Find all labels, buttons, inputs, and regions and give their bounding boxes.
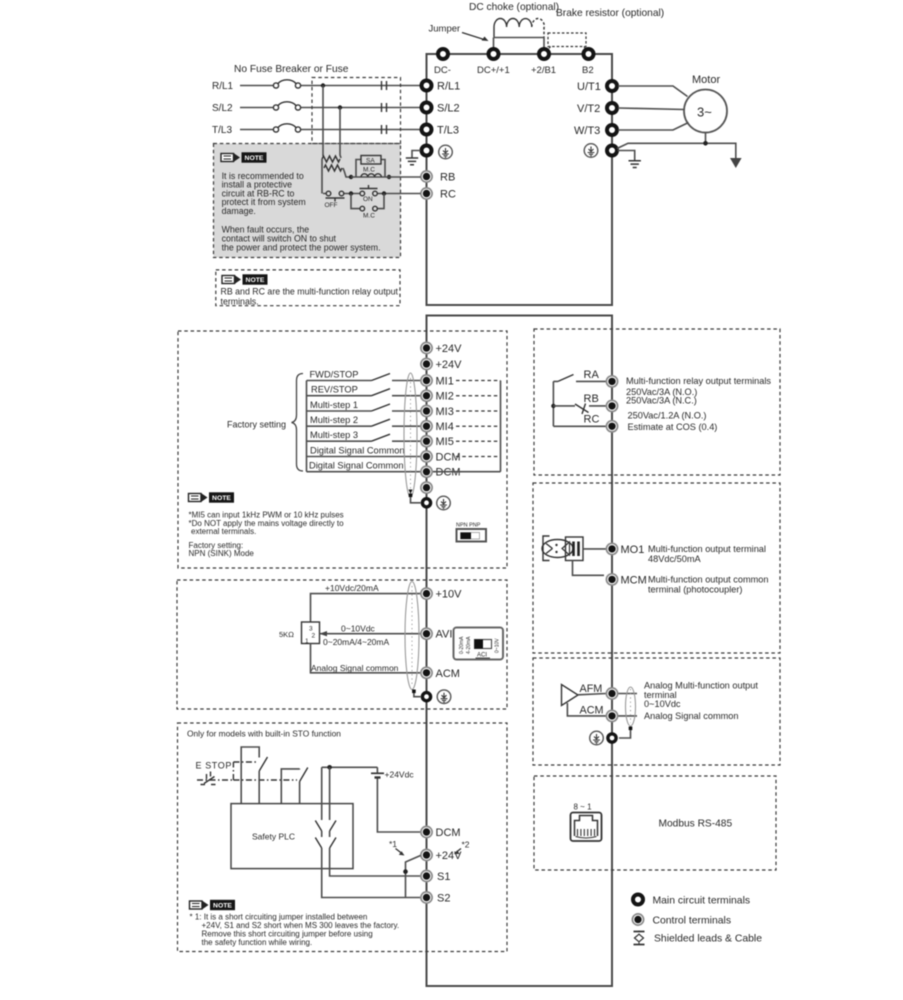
label ACM right: [580, 704, 604, 716]
safety PLC box: [231, 804, 353, 869]
svg-text:250Vac/3A (N.C.): 250Vac/3A (N.C.): [626, 396, 697, 406]
svg-text:2: 2: [312, 633, 316, 640]
control section rectangle: [427, 316, 613, 987]
label RB: [584, 393, 599, 405]
terminal T/L3: [422, 125, 460, 137]
label 0~20mA/4~20mA: [323, 637, 389, 647]
terminal B2: [582, 49, 594, 76]
wire S/L2 phase: [240, 107, 420, 109]
wire RC feed: [323, 193, 421, 195]
label Multi-step 1: [310, 400, 358, 410]
svg-text:OFF: OFF: [325, 202, 338, 209]
ground wire left: [412, 151, 421, 159]
ground wire right: [618, 151, 635, 161]
shield wire to motor earth: [617, 143, 736, 158]
svg-text:R/L1: R/L1: [437, 81, 460, 93]
node OFF out: [349, 191, 353, 195]
terminal shield digital: [422, 499, 430, 507]
relay output dashed box: [534, 329, 780, 475]
wire RC relay: [553, 425, 606, 427]
svg-text:Only for models with built-in: Only for models with built-in STO functi…: [187, 729, 341, 739]
label AFM: [580, 683, 603, 695]
terminal U/T1: [577, 81, 617, 93]
shield ellipse analog: [405, 582, 421, 697]
terminal MI1: [421, 375, 454, 388]
node tap S/L2: [338, 105, 342, 109]
svg-text:48Vdc/50mA: 48Vdc/50mA: [648, 554, 701, 564]
svg-text:NPN PNP: NPN PNP: [456, 523, 481, 529]
wire pot wiper to AVI: [320, 631, 421, 636]
svg-text:Analog Multi-function output: Analog Multi-function output: [644, 680, 758, 690]
terminal shield AFM: [608, 734, 616, 742]
contact STO1: [241, 747, 267, 804]
wire sink vertical: [500, 381, 502, 472]
wire STO channel 2: [315, 767, 420, 897]
dashed link MI1: [456, 380, 501, 382]
svg-text:DCM: DCM: [436, 452, 461, 464]
label Digital Signal Common b: [309, 461, 404, 471]
switch ACI dip: [454, 628, 504, 660]
svg-text:No Fuse Breaker or Fuse: No Fuse Breaker or Fuse: [234, 64, 349, 75]
label DC choke (optional): [469, 2, 559, 13]
label *2 with arrow: [454, 840, 470, 855]
svg-text:AVI: AVI: [436, 629, 453, 641]
svg-text:external terminals.: external terminals.: [191, 527, 256, 536]
svg-text:DC-: DC-: [434, 65, 451, 76]
capacitor bars T/L3: [382, 125, 387, 134]
terminal S1: [421, 870, 451, 883]
svg-text:NPN (SINK) Mode: NPN (SINK) Mode: [189, 549, 255, 558]
wire relay left bus: [551, 381, 555, 426]
svg-text:0~10Vdc: 0~10Vdc: [341, 624, 376, 634]
wire ACM right: [567, 703, 637, 716]
svg-text:S1: S1: [437, 871, 450, 883]
svg-text:RA: RA: [584, 369, 600, 381]
svg-text:M.C: M.C: [363, 213, 375, 220]
terminal AFM: [606, 688, 617, 699]
meter AFM triangle: [562, 685, 579, 706]
svg-text:0~10V: 0~10V: [495, 638, 501, 653]
label Factory setting: [227, 420, 286, 430]
node prot B: [387, 175, 391, 179]
upper dashed box: [312, 78, 401, 144]
svg-text:Safety PLC: Safety PLC: [252, 832, 295, 842]
connector RJ45: [571, 813, 602, 842]
wire R/L1 phase: [240, 85, 420, 87]
svg-text:the safety function while wiri: the safety function while wiring.: [202, 938, 313, 947]
dashed link MI5: [456, 440, 501, 442]
svg-text:terminal (photocoupler): terminal (photocoupler): [648, 584, 742, 594]
svg-text:RB: RB: [584, 393, 599, 405]
terminal MI2: [421, 390, 454, 403]
svg-text:FWD/STOP: FWD/STOP: [310, 370, 359, 380]
wire DCM b link: [433, 471, 501, 473]
svg-text:Control terminals: Control terminals: [653, 916, 732, 927]
MO1 dashed box: [533, 483, 780, 653]
battery +24Vdc: [371, 767, 420, 832]
switch MI5: [307, 434, 421, 441]
svg-text:Estimate at COS (0.4): Estimate at COS (0.4): [628, 422, 718, 432]
label Brake resistor (optional): [556, 8, 664, 19]
pushbutton OFF: [325, 191, 345, 209]
label Multi-step 2: [310, 415, 358, 425]
terminal RC: [421, 188, 456, 201]
svg-text:4-20mA: 4-20mA: [466, 636, 472, 654]
wire W/T3 to motor: [618, 123, 689, 131]
wire MO1: [583, 548, 606, 550]
terminal W/T3: [574, 125, 617, 137]
label 8 ~ 1: [574, 803, 593, 812]
svg-text:damage.: damage.: [222, 206, 256, 216]
svg-text:MO1: MO1: [621, 544, 645, 556]
terminal RA: [606, 376, 617, 387]
label 0~10Vdc: [341, 624, 376, 634]
svg-text:B2: B2: [582, 65, 594, 76]
svg-text:S/L2: S/L2: [437, 103, 460, 115]
label S/L2 left: [212, 103, 233, 114]
svg-text:Brake resistor (optional): Brake resistor (optional): [556, 8, 664, 19]
terminal RC relay: [606, 421, 617, 432]
svg-text:Digital Signal Common: Digital Signal Common: [309, 461, 404, 471]
terminal spare: [421, 482, 432, 493]
capacitor bars S/L2: [382, 103, 387, 112]
svg-text:DCM: DCM: [436, 467, 461, 479]
svg-text:the power and protect the powe: the power and protect the power system.: [222, 242, 381, 252]
note icon digital: [189, 492, 235, 502]
svg-text:REV/STOP: REV/STOP: [311, 385, 358, 395]
switch E-stop: [201, 772, 216, 785]
wire tap R down: [322, 86, 324, 157]
svg-text:T/L3: T/L3: [437, 125, 459, 137]
fuse R/L1: [273, 80, 300, 88]
svg-text:U/T1: U/T1: [577, 81, 601, 93]
svg-text:Modbus RS-485: Modbus RS-485: [659, 819, 733, 830]
label FWD/STOP: [310, 370, 359, 380]
potentiometer 5K: [279, 622, 320, 645]
label +10Vdc/20mA: [325, 583, 379, 593]
svg-text:Main circuit terminals: Main circuit terminals: [653, 896, 751, 907]
legend main circuit terminal: [633, 895, 750, 907]
analog input dashed box: [177, 580, 507, 709]
svg-text:V/T2: V/T2: [577, 103, 600, 115]
PE symbol AFM: [590, 731, 604, 745]
svg-text:RB and RC are the multi-functi: RB and RC are the multi-function relay o…: [221, 286, 399, 296]
svg-text:0-20mA: 0-20mA: [459, 636, 465, 654]
svg-text:RC: RC: [584, 414, 600, 426]
terminal DCM sto: [421, 826, 461, 839]
legend control terminal: [632, 914, 731, 927]
terminal ground left: [422, 146, 432, 156]
dashed link MI4: [456, 425, 501, 427]
svg-text:0~20mA/4~20mA: 0~20mA/4~20mA: [323, 637, 389, 647]
wire MCM: [573, 561, 605, 576]
svg-text:+10V: +10V: [436, 589, 463, 601]
terminal ACM right: [606, 710, 617, 721]
note text 1: [222, 171, 381, 252]
brace factory setting: [292, 374, 304, 472]
dashed link MI2: [456, 395, 501, 397]
switch MI4: [307, 419, 421, 426]
svg-text:Jumper: Jumper: [429, 24, 461, 35]
dashed link DCM a: [456, 456, 501, 458]
AFM text block: [644, 680, 758, 721]
terminal +24V sto: [421, 849, 462, 862]
label Multi-step 3: [310, 430, 358, 440]
svg-text:Digital Signal Common: Digital Signal Common: [310, 446, 405, 456]
svg-text:S2: S2: [437, 893, 450, 905]
terminal ACM: [421, 667, 460, 680]
ground symbol motor (triangle): [730, 158, 742, 168]
svg-text:Multi-function output terminal: Multi-function output terminal: [648, 544, 766, 554]
relay text block: [626, 376, 771, 432]
label No Fuse Breaker or Fuse: [234, 64, 349, 75]
digital input dashed box: [178, 331, 507, 568]
fuse S/L2: [273, 102, 300, 110]
STO dashed box: [178, 723, 508, 952]
photocoupler U1: [542, 536, 583, 561]
terminal shield analog: [422, 693, 430, 701]
svg-text:+24Vdc: +24Vdc: [385, 770, 415, 780]
label RC relay: [584, 414, 600, 426]
svg-text:3: 3: [309, 626, 313, 633]
svg-text:R/L1: R/L1: [212, 81, 234, 92]
grey note box: [214, 144, 401, 258]
shield ellipse digital: [404, 373, 421, 503]
wire AFM: [578, 694, 637, 695]
label Digital Signal Common a: [310, 446, 405, 456]
PE symbol right: [584, 144, 598, 158]
contact RB: [553, 404, 606, 415]
svg-text:ACM: ACM: [436, 668, 460, 680]
svg-text:Factory setting: Factory setting: [227, 420, 286, 430]
main circuit rectangle: [427, 54, 613, 305]
node prot A: [349, 175, 353, 179]
pushbutton ON: [360, 185, 378, 203]
resistor R1: [322, 156, 340, 162]
note text digital: [189, 511, 345, 559]
svg-text:RC: RC: [440, 189, 456, 201]
svg-text:MI4: MI4: [436, 421, 454, 433]
wire tap S down: [340, 108, 341, 159]
terminal MI4: [421, 421, 454, 434]
legend shielded leads symbol: [634, 931, 763, 946]
switch MI3: [307, 404, 421, 411]
svg-text:MI1: MI1: [436, 376, 454, 388]
contact STO2: [281, 768, 308, 804]
svg-text:MI5: MI5: [436, 436, 454, 448]
jumper bar: [494, 38, 545, 50]
label Only for models with built-in STO function: [187, 729, 341, 739]
svg-text:ON: ON: [363, 196, 373, 203]
svg-text:W/T3: W/T3: [574, 125, 600, 137]
wire U/T1 to motor: [618, 86, 688, 97]
terminal R/L1: [422, 81, 461, 93]
svg-text:250Vac/1.2A (N.O.): 250Vac/1.2A (N.O.): [628, 411, 707, 421]
label Jumper with arrow: [429, 24, 489, 42]
wire pot to ACM: [311, 644, 421, 673]
wire pot to +10V: [311, 594, 421, 622]
wire T/L3 phase: [240, 129, 420, 131]
svg-text:SA: SA: [366, 158, 375, 165]
node tap R/L1: [321, 83, 325, 87]
note icon 2: [222, 274, 268, 284]
contact MC parallel: [351, 194, 384, 220]
PE symbol left: [439, 145, 453, 159]
svg-text:AFM: AFM: [580, 683, 603, 695]
svg-text:1: 1: [305, 638, 309, 645]
svg-text:E STOP: E STOP: [196, 761, 232, 771]
terminal +24V b: [421, 358, 462, 371]
svg-text:MCM: MCM: [621, 574, 647, 586]
label T/L3 left: [212, 125, 232, 136]
terminal +10V: [421, 588, 462, 601]
note icon sto: [190, 900, 236, 910]
svg-text:M.C: M.C: [363, 167, 375, 174]
terminal DCM b: [421, 466, 461, 479]
PE symbol analog: [437, 690, 451, 704]
terminal MI5: [421, 436, 454, 449]
terminal DC-: [434, 49, 451, 76]
motor M1: [684, 90, 727, 133]
svg-text:T/L3: T/L3: [212, 125, 232, 136]
svg-text:RB: RB: [440, 172, 455, 184]
note icon 1: [221, 152, 267, 162]
svg-text:+24V: +24V: [436, 359, 463, 371]
svg-text:DCM: DCM: [436, 827, 461, 839]
svg-text:Multi-step 2: Multi-step 2: [310, 415, 358, 425]
label RA: [584, 369, 600, 381]
svg-text:terminals.: terminals.: [221, 296, 259, 306]
svg-text:*2: *2: [462, 840, 470, 850]
terminal +24V a: [421, 342, 462, 355]
terminal +2/B1: [531, 49, 556, 76]
svg-text:DC+/+1: DC+/+1: [477, 65, 510, 76]
svg-text:+10Vdc/20mA: +10Vdc/20mA: [325, 583, 379, 593]
note text sto: [190, 913, 400, 948]
switch MI2: [307, 389, 421, 396]
svg-text:DC choke (optional): DC choke (optional): [469, 2, 559, 13]
capacitor bars R/L1: [382, 81, 387, 90]
svg-text:MI3: MI3: [436, 406, 454, 418]
svg-text:Analog Signal common: Analog Signal common: [644, 711, 738, 721]
wire left bus digital: [306, 381, 308, 472]
ground symbol left: [406, 158, 418, 165]
svg-text:Multi-step 1: Multi-step 1: [310, 400, 358, 410]
svg-text:*1: *1: [389, 839, 397, 849]
contact RA: [553, 375, 606, 382]
terminal MI3: [421, 405, 454, 418]
relay coil M.C: [361, 167, 381, 178]
shield ellipse AFM: [619, 687, 636, 738]
switch MI1: [307, 374, 421, 381]
svg-text:Shielded leads & Cable: Shielded leads & Cable: [654, 934, 762, 945]
top bus wire: [427, 53, 613, 55]
svg-text:Analog Signal common: Analog Signal common: [311, 663, 399, 673]
svg-text:Multi-step 3: Multi-step 3: [310, 430, 358, 440]
resistor R2: [324, 165, 342, 171]
surge absorber SA box: [356, 156, 385, 178]
terminal DC+/+1: [477, 49, 510, 76]
AFM dashed box: [533, 658, 780, 765]
label Modbus RS-485: [659, 819, 733, 830]
label *1 with arrow: [389, 839, 405, 856]
svg-text:MI2: MI2: [436, 391, 454, 403]
PE symbol digital: [437, 496, 451, 510]
terminal AVI: [421, 628, 453, 641]
label E STOP: [196, 761, 232, 771]
wire DCM a: [307, 456, 421, 458]
terminal V/T2: [577, 103, 617, 115]
svg-text:3~: 3~: [697, 105, 712, 120]
wire V/T2 to motor: [618, 108, 684, 110]
svg-text:5KΩ: 5KΩ: [279, 630, 294, 639]
wire STO channel 1: [330, 767, 420, 876]
ground symbol right: [629, 161, 641, 168]
terminal S/L2: [422, 103, 460, 115]
svg-text:Motor: Motor: [692, 74, 720, 86]
terminal RB: [606, 400, 617, 411]
svg-text:8 ~ 1: 8 ~ 1: [574, 803, 593, 812]
svg-text:0~10Vdc: 0~10Vdc: [644, 699, 681, 709]
svg-text:+2/B1: +2/B1: [531, 65, 556, 76]
node ON out: [382, 191, 386, 195]
terminal DCM a: [421, 451, 461, 464]
wire motor stem: [703, 133, 708, 146]
brake resistor dashed box: [546, 33, 588, 53]
fuse T/L3: [273, 124, 300, 132]
svg-text:Multi-function relay output te: Multi-function relay output terminals: [626, 376, 771, 386]
terminal S2: [421, 892, 451, 905]
label REV/STOP: [311, 385, 358, 395]
wire STO feed horizontal: [322, 765, 378, 770]
dashed link MI3: [456, 410, 501, 412]
motor label: [692, 74, 720, 86]
note box 2: [216, 270, 400, 306]
svg-text:+24V: +24V: [436, 343, 463, 355]
label R/L1 left: [212, 81, 234, 92]
switch NPN/PNP: [456, 523, 486, 542]
MO1 text block: [648, 544, 769, 595]
svg-text:Multi-function output common: Multi-function output common: [648, 574, 769, 584]
Modbus dashed box: [534, 776, 776, 870]
wire DCM b: [307, 471, 421, 473]
jumper short-circuit: [403, 856, 420, 898]
wire resistor links: [322, 159, 351, 194]
inductor DC choke: [494, 18, 544, 37]
linkage dash-dot E-stop: [197, 762, 297, 780]
label Analog Signal common: [311, 663, 399, 673]
terminal ground right: [607, 146, 617, 156]
wire RB feed: [351, 176, 421, 178]
terminal MO1: [606, 543, 644, 556]
svg-text:ACM: ACM: [580, 704, 604, 716]
note text 2: [221, 286, 399, 306]
svg-text:S/L2: S/L2: [212, 103, 233, 114]
terminal RB: [421, 171, 455, 184]
terminal MCM: [606, 574, 646, 587]
